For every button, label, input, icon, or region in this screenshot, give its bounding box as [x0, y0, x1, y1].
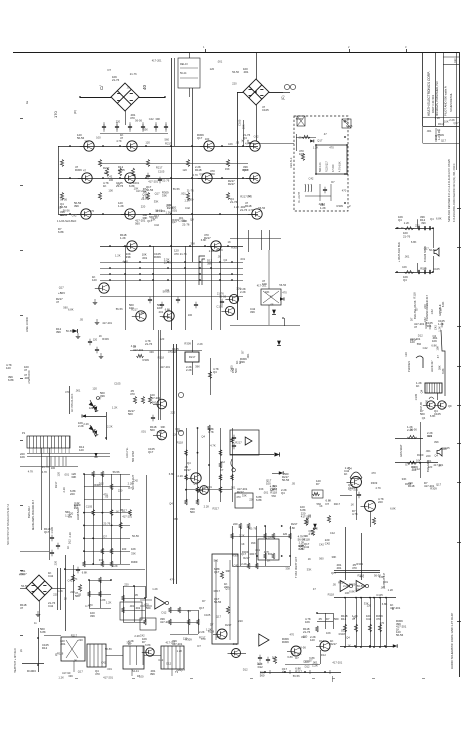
svg-text:C42: C42 — [330, 531, 335, 535]
svg-text:120: 120 — [246, 139, 250, 144]
svg-text:6.8K: 6.8K — [256, 498, 262, 502]
svg-text:R217: R217 — [334, 502, 341, 506]
svg-text:4.7K: 4.7K — [210, 443, 216, 447]
svg-text:6.8K: 6.8K — [40, 630, 46, 634]
svg-text:470: 470 — [376, 617, 381, 621]
svg-text:.05: .05 — [235, 141, 239, 145]
svg-text:39K: 39K — [56, 330, 61, 334]
svg-text:21-76: 21-76 — [187, 189, 194, 193]
svg-text:470: 470 — [88, 603, 93, 607]
svg-text:R309: R309 — [231, 246, 238, 250]
svg-text:R217: R217 — [338, 581, 345, 585]
svg-text:C42: C42 — [107, 174, 112, 178]
svg-text:8: 8 — [392, 607, 394, 611]
svg-text:4.7K 6.8K: 4.7K 6.8K — [339, 161, 342, 172]
svg-text:220: 220 — [378, 500, 383, 504]
svg-text:.001: .001 — [240, 257, 246, 261]
svg-text:470: 470 — [342, 189, 347, 193]
svg-text:170: 170 — [53, 111, 58, 118]
svg-text:100: 100 — [304, 660, 309, 664]
svg-text:R309: R309 — [154, 255, 161, 259]
svg-text:C42: C42 — [185, 206, 190, 210]
svg-text:220: 220 — [233, 522, 238, 526]
svg-text:Q4: Q4 — [346, 636, 350, 640]
svg-text:21-76: 21-76 — [182, 222, 190, 226]
svg-text:R217: R217 — [228, 182, 235, 186]
svg-text:100: 100 — [188, 313, 193, 317]
svg-text:120: 120 — [310, 638, 315, 642]
svg-text:220: 220 — [54, 560, 58, 565]
svg-text:T3: T3 — [175, 670, 179, 674]
svg-text:56-56: 56-56 — [299, 645, 306, 649]
svg-text:R309: R309 — [417, 453, 424, 457]
svg-text:Q4: Q4 — [422, 416, 426, 420]
svg-text:560: 560 — [152, 401, 157, 405]
svg-text:560: 560 — [272, 494, 277, 498]
svg-text:2.2K: 2.2K — [209, 249, 215, 253]
svg-text:33K: 33K — [225, 167, 230, 171]
svg-text:Q17: Q17 — [199, 606, 205, 610]
svg-text:1.2K: 1.2K — [206, 627, 212, 631]
svg-text:HEATH ELECTRONICS CORP.: HEATH ELECTRONICS CORP. — [427, 71, 431, 116]
svg-text:220: 220 — [423, 304, 427, 309]
svg-text:470: 470 — [360, 575, 365, 579]
svg-text:33K: 33K — [154, 200, 159, 204]
svg-text:120: 120 — [89, 406, 94, 410]
svg-text:6.8K: 6.8K — [390, 507, 396, 511]
svg-text:4.7K: 4.7K — [375, 486, 381, 490]
svg-text:21-76: 21-76 — [112, 78, 120, 82]
svg-text:47: 47 — [270, 294, 273, 298]
svg-text:D12: D12 — [319, 639, 324, 643]
svg-text:R309: R309 — [232, 553, 239, 557]
svg-text:21-76: 21-76 — [145, 342, 153, 346]
svg-text:39K: 39K — [74, 204, 79, 208]
svg-text:560: 560 — [173, 517, 178, 521]
svg-text:470: 470 — [371, 471, 376, 475]
svg-text:56-56: 56-56 — [357, 584, 364, 588]
svg-text:417-201: 417-201 — [160, 365, 170, 369]
svg-text:21-76: 21-76 — [180, 252, 187, 256]
svg-text:417-201: 417-201 — [133, 348, 144, 352]
svg-text:.001: .001 — [64, 472, 70, 476]
svg-text:33K: 33K — [126, 255, 131, 259]
svg-text:10K: 10K — [134, 186, 139, 190]
svg-text:.001: .001 — [255, 548, 261, 552]
svg-text:6.8K: 6.8K — [382, 602, 388, 606]
svg-text:10K: 10K — [299, 152, 304, 156]
svg-text:2.2K: 2.2K — [199, 630, 205, 634]
svg-text:417-201: 417-201 — [162, 315, 172, 319]
svg-text:560: 560 — [190, 510, 195, 514]
svg-text:R309: R309 — [185, 638, 192, 642]
svg-text:47: 47 — [313, 587, 316, 591]
svg-text:220: 220 — [60, 213, 65, 217]
svg-text:D7: D7 — [326, 617, 330, 621]
svg-text:C42: C42 — [433, 325, 437, 330]
svg-text:Q17: Q17 — [441, 139, 447, 143]
svg-text:.001: .001 — [181, 192, 187, 196]
svg-text:D7: D7 — [405, 463, 409, 467]
svg-text:56-56: 56-56 — [293, 674, 300, 678]
svg-text:1.2K: 1.2K — [152, 587, 158, 591]
svg-text:C42: C42 — [158, 658, 163, 662]
svg-text:Q4: Q4 — [224, 258, 228, 262]
svg-text:Q17: Q17 — [216, 615, 222, 619]
svg-text:1K: 1K — [137, 674, 140, 678]
svg-text:R309: R309 — [424, 322, 428, 329]
svg-text:Q17: Q17 — [78, 669, 84, 673]
svg-text:.001: .001 — [232, 642, 238, 646]
svg-text:.05: .05 — [270, 303, 274, 307]
svg-text:Q4: Q4 — [201, 435, 205, 439]
svg-text:C105: C105 — [216, 305, 223, 309]
svg-text:1.2K: 1.2K — [65, 513, 71, 517]
svg-text:1K: 1K — [348, 644, 351, 648]
svg-text:.001: .001 — [263, 491, 269, 495]
svg-text:39K: 39K — [155, 117, 160, 121]
svg-text:R309: R309 — [356, 562, 363, 566]
svg-text:D7: D7 — [331, 180, 335, 184]
svg-text:1K: 1K — [238, 360, 242, 364]
svg-text:33K: 33K — [99, 558, 104, 562]
svg-text:470: 470 — [95, 672, 100, 676]
svg-text:C42: C42 — [140, 634, 145, 638]
svg-text:R217: R217 — [330, 642, 337, 646]
svg-text:47: 47 — [20, 606, 24, 610]
svg-text:.001: .001 — [158, 310, 164, 314]
svg-text:1.2K: 1.2K — [313, 145, 319, 149]
svg-text:56-56: 56-56 — [77, 136, 85, 140]
svg-text:39K: 39K — [126, 641, 131, 645]
svg-text:56-56: 56-56 — [279, 283, 286, 287]
svg-text:R217: R217 — [250, 552, 257, 556]
svg-text:C42: C42 — [313, 527, 318, 531]
svg-text:RED-BLK: RED-BLK — [290, 157, 293, 168]
svg-text:47 220: 47 220 — [332, 164, 335, 172]
svg-text:Q17: Q17 — [436, 482, 442, 486]
svg-text:R217: R217 — [295, 670, 302, 674]
svg-text:560: 560 — [268, 552, 273, 556]
svg-text:.001: .001 — [425, 449, 431, 453]
svg-text:6.8K: 6.8K — [169, 472, 175, 476]
svg-text:R217: R217 — [165, 141, 172, 145]
svg-text:56-56: 56-56 — [116, 307, 123, 311]
svg-text:120: 120 — [182, 168, 187, 172]
svg-text:1.2K: 1.2K — [439, 308, 443, 314]
svg-text:10K: 10K — [432, 339, 437, 343]
svg-text:Q17: Q17 — [199, 172, 205, 176]
svg-text:2.2K: 2.2K — [178, 474, 184, 478]
svg-text:C42: C42 — [68, 579, 73, 583]
svg-text:47: 47 — [436, 355, 440, 358]
svg-text:Q4: Q4 — [169, 502, 173, 506]
svg-text:120: 120 — [210, 67, 215, 71]
svg-text:Q4: Q4 — [190, 218, 194, 222]
svg-text:6.8K: 6.8K — [165, 307, 171, 311]
svg-text:R118 Q17: R118 Q17 — [326, 161, 329, 172]
svg-text:100: 100 — [122, 547, 127, 551]
svg-text:C105: C105 — [414, 393, 418, 400]
svg-text:Q9: Q9 — [448, 404, 452, 408]
svg-text:560: 560 — [214, 559, 219, 563]
svg-text:220: 220 — [171, 411, 176, 415]
svg-text:D7: D7 — [210, 623, 214, 627]
svg-text:1K: 1K — [241, 542, 244, 546]
svg-text:P1: P1 — [22, 431, 26, 435]
svg-text:D7: D7 — [241, 350, 245, 354]
svg-text:10K: 10K — [305, 620, 310, 624]
svg-text:.05: .05 — [298, 135, 302, 139]
svg-text:1K: 1K — [66, 546, 70, 549]
svg-text:220: 220 — [53, 593, 58, 597]
svg-text:1.2K: 1.2K — [112, 564, 118, 568]
svg-text:56-56: 56-56 — [258, 206, 265, 210]
svg-text:C42: C42 — [234, 564, 239, 568]
svg-text:560: 560 — [425, 400, 429, 405]
svg-text:.05: .05 — [58, 206, 62, 210]
svg-text:R309: R309 — [282, 640, 289, 644]
svg-text:470: 470 — [174, 252, 179, 256]
svg-text:C42: C42 — [325, 541, 331, 545]
svg-text:D7: D7 — [220, 468, 224, 472]
svg-text:100: 100 — [96, 136, 101, 140]
svg-text:2.2K: 2.2K — [107, 425, 113, 429]
svg-text:2.2K: 2.2K — [68, 532, 72, 538]
svg-text:6.8K: 6.8K — [287, 655, 293, 659]
svg-text:10K: 10K — [435, 346, 439, 351]
svg-text:Q4: Q4 — [213, 370, 217, 374]
svg-text:470: 470 — [65, 390, 70, 394]
svg-text:56-56: 56-56 — [132, 534, 139, 538]
svg-text:RELAY: RELAY — [180, 63, 188, 66]
svg-text:560: 560 — [165, 137, 170, 141]
svg-text:D12: D12 — [258, 665, 264, 669]
svg-text:39K: 39K — [421, 221, 426, 225]
svg-text:R118: R118 — [270, 491, 277, 495]
svg-text:.001: .001 — [24, 376, 30, 380]
svg-text:D12: D12 — [68, 539, 72, 544]
svg-text:220: 220 — [116, 120, 121, 124]
svg-text:C42: C42 — [319, 542, 324, 546]
svg-text:D7: D7 — [410, 317, 414, 321]
svg-text:56-56: 56-56 — [105, 647, 112, 651]
svg-text:560: 560 — [319, 556, 324, 560]
svg-text:560: 560 — [334, 617, 339, 621]
svg-text:.001: .001 — [134, 181, 140, 185]
svg-text:BIAS ADJ: BIAS ADJ — [27, 506, 31, 518]
svg-text:21-76: 21-76 — [230, 200, 238, 204]
svg-text:R309: R309 — [242, 168, 249, 172]
svg-text:417-201: 417-201 — [102, 321, 112, 325]
svg-text:Q4: Q4 — [420, 389, 424, 393]
svg-text:R118: R118 — [405, 482, 412, 486]
svg-text:.05: .05 — [291, 482, 295, 486]
svg-text:56-56: 56-56 — [63, 208, 70, 212]
svg-text:4.7K: 4.7K — [208, 430, 214, 434]
svg-text:1.2K: 1.2K — [320, 206, 326, 210]
svg-text:D7: D7 — [295, 656, 299, 660]
svg-text:6.8K: 6.8K — [441, 301, 445, 307]
svg-text:40: 40 — [142, 84, 147, 90]
svg-text:Q17: Q17 — [268, 535, 274, 539]
svg-text:C105: C105 — [443, 446, 450, 450]
svg-text:560: 560 — [284, 472, 289, 476]
svg-text:C105: C105 — [204, 613, 211, 617]
svg-text:.05: .05 — [126, 86, 130, 90]
svg-text:10K: 10K — [326, 631, 331, 635]
svg-text:56-56: 56-56 — [429, 248, 436, 252]
svg-text:1 1/2A SLO-BLO: 1 1/2A SLO-BLO — [57, 219, 76, 223]
svg-text:REF: REF — [454, 58, 457, 63]
svg-text:56-24: 56-24 — [180, 72, 187, 75]
svg-text:417-201: 417-201 — [332, 660, 342, 664]
svg-text:56-56: 56-56 — [232, 70, 239, 74]
svg-text:21-76: 21-76 — [130, 72, 137, 76]
svg-text:.001: .001 — [129, 604, 135, 608]
svg-text:D12: D12 — [341, 617, 347, 621]
svg-text:33K: 33K — [131, 552, 136, 556]
svg-text:39K: 39K — [74, 506, 79, 510]
svg-text:C42: C42 — [154, 223, 159, 227]
svg-text:2.2K: 2.2K — [83, 422, 89, 426]
svg-text:R118: R118 — [158, 356, 165, 360]
svg-text:21-76: 21-76 — [303, 630, 311, 634]
svg-text:MAIN AMPL BOARD 417: MAIN AMPL BOARD 417 — [31, 499, 35, 530]
svg-text:2.2K: 2.2K — [241, 562, 247, 566]
svg-text:1.2K: 1.2K — [115, 254, 121, 258]
svg-text:560: 560 — [128, 412, 133, 416]
svg-text:33K: 33K — [85, 139, 90, 143]
svg-text:120: 120 — [93, 337, 98, 341]
svg-text:56-56: 56-56 — [66, 329, 73, 333]
svg-text:(C): (C) — [281, 96, 285, 100]
svg-text:SCHEM DETAIL: SCHEM DETAIL — [449, 92, 453, 112]
svg-text:33K: 33K — [259, 487, 264, 491]
svg-text:.001: .001 — [380, 586, 386, 590]
svg-text:.001: .001 — [107, 667, 113, 671]
svg-text:R309: R309 — [184, 341, 191, 345]
svg-text:.05: .05 — [79, 318, 83, 322]
svg-text:C105: C105 — [86, 505, 93, 509]
svg-text:4.7K: 4.7K — [72, 577, 78, 581]
svg-text:D12: D12 — [341, 628, 346, 632]
svg-text:AUDIO SCHEMATIC 1/96% 1298 1-P: AUDIO SCHEMATIC 1/96% 1298 1-P7 DLZP — [450, 613, 454, 669]
svg-text:C/: C/ — [99, 85, 104, 90]
svg-text:21-76: 21-76 — [103, 521, 110, 525]
svg-text:PHONES: PHONES — [407, 361, 411, 372]
svg-text:120: 120 — [57, 472, 61, 477]
svg-text:.001: .001 — [75, 389, 81, 393]
svg-text:1.2K: 1.2K — [57, 589, 63, 593]
svg-text:.001: .001 — [172, 208, 178, 212]
svg-text:560: 560 — [146, 606, 151, 610]
svg-text:47: 47 — [56, 300, 60, 304]
svg-text:21-76: 21-76 — [403, 234, 411, 238]
svg-text:.001: .001 — [141, 429, 147, 433]
svg-text:D12: D12 — [321, 653, 326, 657]
svg-text:1K: 1K — [416, 384, 420, 388]
svg-text:R118: R118 — [57, 652, 64, 656]
svg-text:1K: 1K — [64, 597, 67, 601]
svg-text:C42: C42 — [133, 479, 138, 483]
svg-text:39K: 39K — [207, 262, 212, 266]
svg-text:Q17: Q17 — [154, 214, 160, 218]
svg-text:.001: .001 — [426, 129, 432, 133]
svg-text:.001: .001 — [60, 642, 66, 646]
svg-text:Q4: Q4 — [398, 218, 402, 222]
svg-text:FIL LIGHT: FIL LIGHT — [298, 191, 301, 203]
svg-text:Q4: Q4 — [281, 491, 285, 495]
svg-text:33K: 33K — [402, 477, 407, 481]
svg-text:6.8K: 6.8K — [290, 526, 296, 530]
svg-text:R217: R217 — [103, 166, 110, 170]
svg-text:C105: C105 — [238, 119, 242, 126]
svg-text:Q4: Q4 — [403, 278, 407, 282]
svg-text:417-201: 417-201 — [148, 180, 158, 184]
svg-text:D7: D7 — [316, 482, 320, 486]
svg-text:.05: .05 — [77, 593, 81, 597]
svg-text:R118: R118 — [438, 122, 445, 126]
svg-text:.05: .05 — [119, 508, 123, 512]
svg-text:4.7K: 4.7K — [352, 512, 358, 516]
svg-text:10K: 10K — [20, 455, 25, 459]
svg-text:D7: D7 — [103, 534, 107, 538]
svg-text:C42: C42 — [298, 547, 304, 551]
svg-text:1.2K: 1.2K — [435, 116, 441, 120]
svg-text:Q4: Q4 — [434, 453, 438, 457]
svg-text:56-56: 56-56 — [219, 294, 226, 298]
svg-text:470: 470 — [290, 632, 295, 636]
svg-text:39K: 39K — [434, 440, 439, 444]
svg-text:.001: .001 — [243, 70, 249, 74]
svg-text:Q17: Q17 — [172, 220, 178, 224]
svg-text:D12: D12 — [220, 460, 225, 464]
svg-text:220: 220 — [124, 582, 129, 586]
svg-text:10K: 10K — [444, 120, 449, 124]
svg-text:417-201: 417-201 — [257, 283, 267, 287]
svg-text:120: 120 — [283, 532, 288, 536]
svg-text:2.2K: 2.2K — [186, 368, 192, 372]
svg-text:470: 470 — [282, 291, 287, 295]
svg-text:417-201: 417-201 — [103, 676, 113, 680]
svg-text:.001: .001 — [135, 606, 141, 610]
svg-text:4.7K: 4.7K — [19, 572, 25, 576]
svg-text:1.2K: 1.2K — [312, 664, 318, 668]
svg-text:C42: C42 — [72, 213, 77, 217]
svg-text:100: 100 — [205, 137, 210, 141]
svg-text:.05: .05 — [134, 593, 138, 597]
svg-text:56-56: 56-56 — [173, 187, 180, 191]
svg-text:417-201: 417-201 — [202, 485, 212, 489]
svg-text:.001: .001 — [383, 580, 389, 584]
svg-text:R118: R118 — [339, 632, 346, 636]
svg-text:33K: 33K — [90, 614, 95, 618]
svg-text:470: 470 — [380, 621, 385, 625]
svg-text:R217: R217 — [243, 556, 250, 560]
svg-text:21-76: 21-76 — [162, 179, 169, 183]
svg-text:33K: 33K — [175, 427, 180, 431]
svg-text:AC INTERLOCK: AC INTERLOCK — [71, 393, 74, 412]
svg-text:120: 120 — [367, 604, 372, 608]
svg-text:100: 100 — [51, 466, 56, 470]
svg-text:560 2.2K: 560 2.2K — [319, 162, 322, 172]
svg-text:417-201: 417-201 — [150, 396, 161, 400]
svg-text:R217: R217 — [291, 522, 298, 526]
svg-text:220: 220 — [428, 465, 433, 469]
svg-text:120: 120 — [303, 634, 308, 638]
svg-text:560: 560 — [150, 428, 155, 432]
